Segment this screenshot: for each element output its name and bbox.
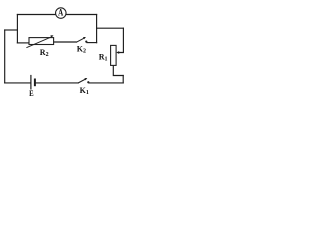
wire R2 branch left	[17, 42, 29, 44]
switch K2	[76, 38, 84, 42]
switch K1	[78, 79, 85, 83]
label E	[29, 88, 34, 98]
resistor R2 (rheostat box)	[29, 38, 54, 45]
wire bottom right vertical	[122, 76, 124, 83]
label A	[58, 7, 63, 17]
battery E long plate	[30, 75, 32, 90]
resistor R1 (box)	[111, 45, 117, 65]
switch K2 contact dot	[85, 41, 87, 43]
wire R1 bottom stub	[113, 65, 123, 75]
svg-text:E: E	[29, 88, 34, 98]
svg-text:A: A	[58, 7, 63, 17]
R1 pointer arrowhead	[116, 51, 119, 54]
wire bottom rail battery to K1	[35, 82, 78, 84]
wire outer left vertical	[4, 30, 6, 83]
wire branch to R1	[97, 27, 124, 29]
switch K1 blade tip	[84, 78, 87, 80]
wire left inner vertical	[16, 15, 18, 43]
rheostat R2 arrow	[26, 35, 53, 48]
wire left connector	[5, 29, 18, 31]
wire R1 arrow drop	[119, 28, 123, 52]
wire top rail	[17, 14, 96, 16]
switch K1 contact dot	[87, 81, 89, 83]
battery E short plate	[34, 79, 36, 87]
ammeter A	[56, 8, 67, 18]
switch K2 blade tip	[83, 37, 86, 39]
wire bottom rail K1 to corner	[89, 82, 123, 84]
wire bottom rail left of battery	[5, 82, 31, 84]
wire right inner vertical	[96, 15, 98, 43]
wire R2 branch right to K2	[54, 41, 77, 43]
wire K2 to right vertical	[87, 42, 97, 44]
